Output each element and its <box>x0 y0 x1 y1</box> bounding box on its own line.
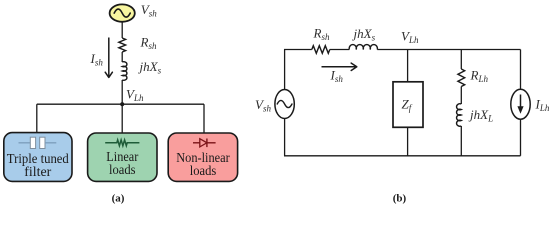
top wire left segment (b) <box>284 49 312 51</box>
text triple tuned filter <box>7 152 69 180</box>
resistor R_Lh <box>458 69 465 87</box>
wire resistor to inductor (load branch) <box>460 87 462 105</box>
non-linear loads box <box>168 133 237 181</box>
current source I_Lh <box>511 89 530 119</box>
linear loads box <box>88 133 157 181</box>
capacitor icon plate 2 <box>40 137 45 148</box>
triple tuned filter box <box>4 133 72 182</box>
svg-text:(a): (a) <box>112 193 125 205</box>
bottom wire (b) <box>284 155 521 157</box>
left wire bottom (b) <box>284 118 286 155</box>
bus wire (a) <box>37 103 204 105</box>
ac source V_sh (b) <box>275 90 294 119</box>
diode icon cathode bar <box>206 139 208 148</box>
wire inductor to bottom (load branch) <box>460 126 462 156</box>
left wire top (b) <box>284 50 286 90</box>
node V_Lh junction dot (a) <box>120 102 124 106</box>
wire top to R_Lh <box>460 50 462 70</box>
resistor R_sh (a) <box>119 38 126 52</box>
current arrow I_sh (b) <box>322 63 357 70</box>
resistor icon in linear loads <box>105 140 139 146</box>
wire resistor to inductor (a) <box>121 52 123 62</box>
wire bus to triple tuned filter <box>36 104 38 133</box>
text non-linear loads <box>176 151 230 179</box>
inductor jhX_L <box>457 104 462 127</box>
wire source to resistor (a) <box>121 22 123 38</box>
top wire right segment (b) <box>377 49 520 51</box>
wire top to current source <box>520 50 522 90</box>
capacitor icon lead right <box>45 142 56 144</box>
impedance box Z_f <box>393 82 423 128</box>
svg-text:(b): (b) <box>393 193 407 205</box>
wire Z_f box to bottom <box>407 127 409 156</box>
wire inductor to bus (a) <box>121 80 123 104</box>
inductor jhX_s (b) <box>349 45 377 50</box>
diode icon lead left <box>193 142 200 144</box>
wire top to Z_f box <box>407 50 409 82</box>
inductor jhX_s (a) <box>122 62 127 81</box>
top wire between resistor and inductor (b) <box>330 49 350 51</box>
text linear loads <box>106 150 138 178</box>
ac source V_sh (a) <box>110 4 135 21</box>
svg-text:loads: loads <box>109 163 136 178</box>
wire bus to linear loads <box>121 104 123 133</box>
diode icon triangle <box>200 139 207 147</box>
current arrow I_sh (a) <box>105 38 112 78</box>
svg-text:filter: filter <box>24 165 51 180</box>
svg-text:loads: loads <box>190 164 217 179</box>
resistor R_sh (b) <box>312 46 330 54</box>
capacitor icon lead left <box>19 142 31 144</box>
wire current source to bottom <box>520 119 522 155</box>
capacitor icon plate 1 <box>30 137 35 148</box>
wire bus to non-linear loads <box>203 104 205 134</box>
diode icon lead right <box>207 142 216 144</box>
